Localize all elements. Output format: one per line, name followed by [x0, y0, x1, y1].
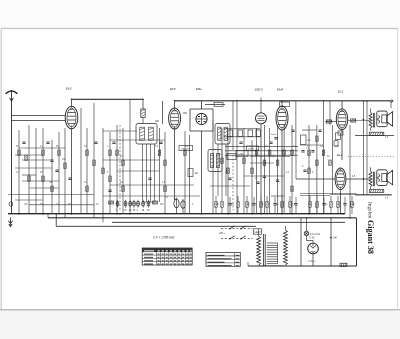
svg-text:E 41: E 41	[310, 237, 316, 240]
svg-text:180: 180	[333, 236, 338, 239]
svg-text:360: 360	[155, 120, 160, 123]
svg-text:2 F + 1785 kHz: 2 F + 1785 kHz	[152, 236, 175, 240]
svg-text:360: 360	[183, 112, 188, 115]
svg-text:b 42 v: b 42 v	[309, 260, 317, 263]
svg-text:6363: 6363	[256, 232, 262, 234]
svg-text:1M: 1M	[225, 172, 228, 174]
svg-text:1M: 1M	[195, 173, 198, 175]
svg-text:Gigant 38: Gigant 38	[366, 220, 375, 254]
svg-text:EBC3: EBC3	[255, 88, 263, 92]
svg-text:Ingelen: Ingelen	[366, 202, 372, 218]
svg-text:6,3v 0,3A: 6,3v 0,3A	[310, 233, 321, 236]
svg-text:EK2: EK2	[66, 87, 72, 91]
svg-text:EF5: EF5	[170, 87, 176, 91]
svg-text:1M: 1M	[185, 146, 188, 148]
svg-text:25000: 25000	[248, 149, 255, 151]
svg-text:50μF: 50μF	[271, 134, 277, 136]
svg-text:EM4: EM4	[277, 88, 284, 92]
svg-text:EL2: EL2	[338, 90, 344, 94]
svg-text:EBe: EBe	[196, 87, 202, 91]
svg-text:220 v: 220 v	[219, 232, 226, 235]
